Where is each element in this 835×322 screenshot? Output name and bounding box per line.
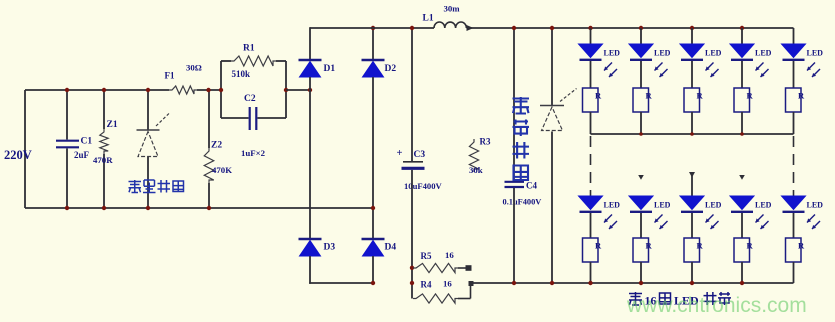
resistor R5 [413, 263, 472, 272]
svg-text:LED: LED [654, 49, 671, 58]
svg-text:www.chtronics.com: www.chtronics.com [626, 294, 807, 317]
wire: row1 LED4 to resistor [741, 61, 743, 88]
svg-text:LED: LED [755, 201, 772, 210]
svg-text:2uF: 2uF [74, 150, 90, 160]
LED L1 row1 emission arrows [604, 63, 617, 78]
LED L3 row2 [680, 196, 704, 212]
node: Z2 bottom junction [207, 206, 211, 210]
wire: row2 R3 to bottom rail [690, 262, 694, 285]
label R3 [480, 137, 491, 147]
label LED row2-2 [654, 201, 671, 210]
label LED row2-4 [755, 201, 772, 210]
label R row2-3 [697, 241, 704, 251]
wire: row1 LED5 top stub [793, 28, 795, 44]
label C2 [244, 94, 256, 104]
resistor R row2-4 [734, 238, 750, 262]
wire: row1 LED5 to resistor [793, 61, 795, 88]
svg-text:220V: 220V [4, 148, 32, 162]
label Z1 [107, 120, 118, 130]
label total LED count chinese [629, 292, 731, 308]
svg-text:D3: D3 [324, 243, 336, 253]
wire: row2 LED4 to resistor [741, 213, 743, 238]
resistor R1 [221, 56, 286, 66]
label R5 [421, 251, 432, 261]
resistor R row2-2 [633, 238, 649, 262]
svg-text:R: R [595, 241, 602, 251]
node: varistor bottom junction [146, 206, 150, 210]
node: row2 LED2 mark [638, 175, 644, 180]
resistor R row2-5 [786, 238, 802, 262]
svg-text:30Ω: 30Ω [186, 63, 202, 73]
value C4 0.1uF400V [503, 198, 542, 207]
label F1 [165, 71, 175, 81]
node: bridge left leg junction [308, 88, 312, 92]
LED L2 row2 [629, 196, 653, 212]
LED L4 row1 [730, 44, 754, 60]
value R4 16 [443, 279, 452, 289]
label LED row1-3 [705, 49, 722, 58]
svg-text:R3: R3 [480, 137, 491, 147]
wire: block left riser [220, 61, 222, 118]
resistor R row1-4 [734, 88, 750, 112]
svg-text:30m: 30m [444, 4, 461, 14]
label LED row1-1 [604, 49, 621, 58]
label LED row1-5 [807, 49, 824, 58]
node: C4 bottom junction [512, 281, 516, 285]
wire: right leg bottom [372, 256, 374, 283]
wire: row1 R5 to rail [793, 112, 795, 134]
node: C1 top junction [65, 88, 69, 92]
node: Z1 bottom junction [102, 206, 106, 210]
svg-text:R: R [646, 241, 653, 251]
capacitor C1 [56, 90, 79, 208]
value C2 1uFx2 [241, 148, 266, 158]
svg-text:R1: R1 [243, 44, 255, 54]
wire: dashed series link left [590, 136, 592, 196]
wire: top DC rail right of L1 [466, 27, 793, 29]
node: Z2 top junction [206, 88, 210, 92]
LED L2 row1 [629, 44, 653, 60]
label LED row1-2 [654, 49, 671, 58]
svg-text:L1: L1 [423, 14, 434, 24]
svg-text:LED: LED [604, 201, 621, 210]
zener diode ZD1 [540, 89, 577, 131]
svg-text:LED: LED [604, 49, 621, 58]
node: C4 top junction [512, 26, 516, 30]
LED L5 row1 [782, 44, 806, 60]
label D4 [385, 243, 397, 253]
LED L5 row2 [782, 196, 806, 212]
diode D4 [362, 239, 385, 256]
svg-text:C4: C4 [526, 181, 537, 191]
resistor Z1 [100, 90, 108, 208]
value C1 2uF [74, 150, 90, 160]
label L1 [423, 14, 434, 24]
wire: D1 top corner [309, 27, 311, 60]
value R5 16 [445, 250, 454, 260]
LED L4 row1 emission arrows [756, 63, 769, 78]
svg-text:C2: C2 [244, 94, 256, 104]
svg-text:R: R [747, 91, 754, 101]
svg-text:D4: D4 [385, 243, 397, 253]
resistor R row1-3 [684, 88, 700, 112]
LED L5 row2 emission arrows [807, 215, 820, 230]
wire: block right riser [285, 61, 287, 118]
node: AC2 junction [371, 206, 375, 210]
wire: C4 branch lower [513, 188, 515, 283]
label R row1-2 [646, 91, 653, 101]
label C4 [526, 181, 537, 191]
wire: bottom DC rail [471, 282, 794, 284]
wire: AC source left vertical [24, 90, 26, 208]
diode D2 [362, 60, 385, 77]
svg-text:R: R [747, 241, 754, 251]
svg-text:R: R [646, 91, 653, 101]
varistor RV1 [137, 90, 171, 208]
wire: row2 LED3 stub [689, 172, 695, 196]
label R row1-3 [697, 91, 704, 101]
wire: row1 R3 to rail [691, 112, 693, 134]
LED L3 row1 emission arrows [706, 63, 719, 78]
label R row2-1 [595, 241, 602, 251]
svg-text:1uF×2: 1uF×2 [241, 148, 266, 158]
watermark chtronics.com [626, 294, 807, 317]
label R row1-5 [798, 91, 805, 101]
label D1 [324, 64, 336, 74]
label R row2-4 [747, 241, 754, 251]
LED L1 row1 [579, 44, 603, 60]
LED L1 row2 emission arrows [604, 215, 617, 230]
wire: right leg top [372, 28, 374, 60]
wire: row1 LED3 top stub [690, 26, 694, 44]
LED L4 row2 [730, 196, 754, 212]
resistor R row2-1 [583, 238, 599, 262]
wire: row2 R2 to bottom rail [639, 262, 643, 285]
label R1 [243, 44, 255, 54]
svg-text:R: R [697, 91, 704, 101]
node: Z1 top junction [102, 88, 106, 92]
node: C1 bottom junction [65, 206, 69, 210]
svg-text:16: 16 [443, 279, 452, 289]
node: C3 top junction [410, 26, 414, 30]
wire: left leg bottom corner [309, 256, 373, 284]
wire: dashed series link right [793, 136, 795, 196]
wire: row2 R4 to bottom rail [740, 262, 744, 285]
svg-text:Z2: Z2 [211, 141, 222, 151]
wire: row1 R4 to rail [741, 112, 743, 134]
wire: row2 LED3 to resistor [691, 213, 693, 238]
wire: right leg middle [372, 77, 374, 239]
LED L3 row2 emission arrows [706, 215, 719, 230]
svg-text:Z1: Z1 [107, 120, 118, 130]
LED L1 row2 [579, 196, 603, 212]
label LED row2-5 [807, 201, 824, 210]
svg-text:510k: 510k [232, 69, 251, 79]
label C1 [81, 137, 93, 147]
label D2 [385, 64, 397, 74]
wire: left leg middle [309, 77, 311, 239]
svg-text:R4: R4 [421, 280, 432, 290]
capacitor C4 [505, 182, 525, 187]
diode D3 [299, 239, 322, 256]
node: D4 bottom junction [371, 281, 375, 285]
resistor R row1-5 [786, 88, 802, 112]
resistor Z2 [204, 90, 214, 208]
label Z2 [211, 141, 222, 151]
node: bottom rail C3 junction [410, 281, 414, 285]
resistor R row1-1 [583, 88, 599, 112]
wire: bottom-left AC rail [25, 207, 373, 209]
node: block right junction [284, 88, 288, 92]
wire: top-left AC rail [25, 89, 221, 91]
value C3 10uF400V [404, 181, 443, 191]
label zener chinese vertical [513, 97, 530, 180]
wire: row1 LED1 top stub [588, 26, 592, 44]
resistor R row2-3 [684, 238, 700, 262]
LED L5 row1 emission arrows [807, 63, 820, 78]
wire: row2 R5 to bottom rail [793, 262, 795, 283]
svg-text:470K: 470K [212, 165, 232, 175]
resistor R4 [413, 281, 474, 303]
capacitor C2 [221, 107, 286, 130]
wire: row2 LED5 to resistor [793, 213, 795, 238]
svg-text:D2: D2 [385, 64, 397, 74]
wire: row2 LED2 to resistor [640, 213, 642, 238]
value R1 510k [232, 69, 251, 79]
LED L4 row2 emission arrows [756, 215, 769, 230]
wire: row1 R1 to rail [590, 112, 592, 134]
wire: row1 LED4 top stub [740, 26, 744, 44]
wire: row1 R2 to rail [640, 112, 642, 134]
node: R5 left junction [410, 266, 414, 270]
wire: row1 LED2 top stub [639, 26, 643, 44]
svg-text:R5: R5 [421, 251, 432, 261]
value R3 30k [469, 165, 483, 175]
label LED row1-4 [755, 49, 772, 58]
node: zener top junction [550, 26, 554, 30]
svg-text:LED: LED [705, 201, 722, 210]
svg-text:10uF400V: 10uF400V [404, 181, 443, 191]
resistor R row1-2 [633, 88, 649, 112]
wire: top DC rail left of L1 [310, 27, 434, 29]
svg-text:LED: LED [807, 201, 824, 210]
label varistor chinese [129, 180, 184, 193]
label LED row2-1 [604, 201, 621, 210]
svg-text:D1: D1 [324, 64, 336, 74]
svg-text:+: + [397, 148, 403, 159]
svg-text:R: R [798, 241, 805, 251]
label R row2-2 [646, 241, 653, 251]
wire: block output to bridge [286, 89, 310, 91]
label C3 plus [397, 148, 403, 159]
label C3 [414, 150, 426, 160]
svg-text:C1: C1 [81, 137, 93, 147]
svg-text:30k: 30k [469, 165, 483, 175]
wire: zener branch upper [551, 28, 553, 105]
svg-text:F1: F1 [165, 71, 175, 81]
wire: C3 branch upper [411, 28, 413, 161]
wire: zener branch lower [551, 132, 553, 284]
value Z1 470R [93, 155, 113, 165]
inductor L1 [434, 22, 466, 28]
wire: row1 LED1 to resistor [590, 61, 592, 88]
svg-text:LED: LED [755, 49, 772, 58]
label R row2-5 [798, 241, 805, 251]
svg-text:C3: C3 [414, 150, 426, 160]
label R row1-4 [747, 91, 754, 101]
value L1 30m [444, 4, 461, 14]
fuse F1 [169, 86, 197, 94]
node: row2 LED4 mark [739, 175, 745, 180]
wire: row2 LED1 to resistor [590, 213, 592, 238]
wire: C4 branch upper [513, 28, 515, 181]
node: arrow after L1 [467, 25, 474, 31]
svg-text:470R: 470R [93, 155, 113, 165]
wire: row1 LED2 to resistor [640, 61, 642, 88]
LED L3 row1 [680, 44, 704, 60]
wire: row1 bottom rail [591, 132, 794, 136]
svg-text:LED: LED [654, 201, 671, 210]
svg-text:LED: LED [807, 49, 824, 58]
LED L2 row2 emission arrows [655, 215, 668, 230]
value F1 30ohm [186, 63, 202, 73]
node: varistor top junction [146, 88, 150, 92]
svg-text:16: 16 [445, 250, 454, 260]
node: D2 top junction [371, 26, 375, 30]
resistor R3 [469, 139, 478, 172]
node: zener bottom junction [550, 281, 554, 285]
wire: C3 branch lower [411, 170, 413, 299]
value Z2 470K [212, 165, 232, 175]
diode D1 [299, 60, 322, 77]
capacitor C3 electrolytic [402, 162, 425, 169]
svg-text:R: R [697, 241, 704, 251]
svg-text:R: R [595, 91, 602, 101]
wire: row1 LED3 to resistor [691, 61, 693, 88]
label R4 [421, 280, 432, 290]
wire: row2 R1 to bottom rail [588, 262, 592, 285]
LED L2 row1 emission arrows [655, 63, 668, 78]
svg-text:0.1uF400V: 0.1uF400V [503, 198, 542, 207]
svg-text:R: R [798, 91, 805, 101]
label D3 [324, 243, 336, 253]
label R row1-1 [595, 91, 602, 101]
label LED row2-3 [705, 201, 722, 210]
node: 220V label [4, 148, 32, 162]
node: block left junction [219, 88, 223, 92]
svg-text:LED: LED [705, 49, 722, 58]
